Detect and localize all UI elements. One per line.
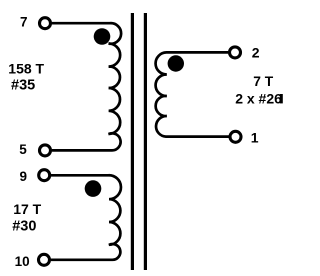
- svg-text:#35: #35: [11, 78, 35, 94]
- svg-text:2: 2: [252, 45, 260, 61]
- svg-text:2 x #26: 2 x #26: [235, 91, 282, 107]
- svg-text:158 T: 158 T: [8, 61, 44, 77]
- svg-text:5: 5: [19, 142, 27, 157]
- svg-text:10: 10: [15, 254, 30, 269]
- svg-text:1: 1: [251, 130, 259, 146]
- svg-text:#30: #30: [12, 219, 36, 235]
- svg-text:9: 9: [20, 169, 28, 184]
- svg-text:7 T: 7 T: [253, 74, 274, 89]
- svg-text:7: 7: [20, 15, 28, 30]
- svg-text:17 T: 17 T: [13, 201, 41, 217]
